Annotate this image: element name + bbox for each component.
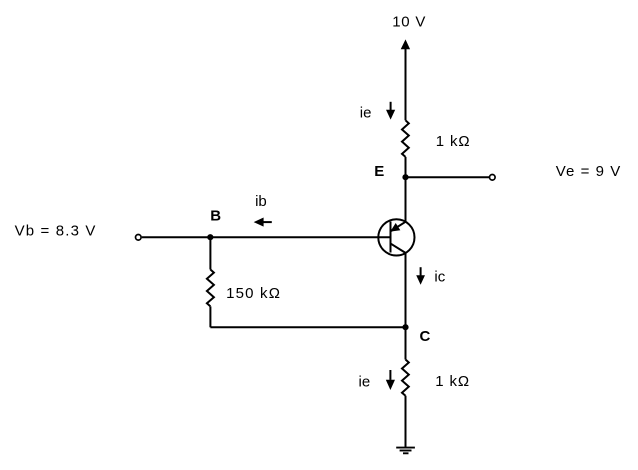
terminal Ve (open circle) [490,175,496,181]
wire bottom horizontal to node C [210,326,405,328]
wire transistor collector to node C [405,253,407,327]
svg-text:C: C [420,328,431,345]
resistor R2 150 kOhm [207,270,214,307]
wire node B down to R2 [209,237,211,269]
svg-text:ib: ib [255,193,267,210]
ground symbol [396,448,415,454]
svg-text:Ve = 9 V: Ve = 9 V [556,163,622,180]
current arrow ie (top) [387,102,395,119]
svg-text:ie: ie [359,374,371,391]
node C dot [402,324,408,330]
wire node C down to R3 [405,327,407,359]
resistor R3 1 kOhm (bottom) [402,360,409,396]
current arrow ib [255,218,272,226]
svg-text:ie: ie [360,105,372,122]
wire R3 bottom to ground [405,396,407,448]
svg-text:1 kΩ: 1 kΩ [435,373,470,390]
wire R2 bottom [209,306,211,327]
svg-text:10 V: 10 V [392,13,426,30]
svg-text:ic: ic [434,268,445,285]
svg-text:B: B [210,208,221,225]
svg-text:1 kΩ: 1 kΩ [436,133,471,150]
node B dot [207,234,213,240]
current arrow ic [417,267,424,283]
node E dot [402,174,408,180]
wire Vb terminal to transistor base [142,236,391,238]
supply V1 arrow [402,41,410,121]
svg-text:150 kΩ: 150 kΩ [226,285,281,302]
wire R1 bottom to transistor emitter lead [405,157,407,222]
resistor R1 1 kOhm (top) [402,120,409,157]
terminal Vb (open circle) [136,235,142,241]
transistor Q1 (PNP) [378,219,414,255]
svg-text:Vb = 8.3 V: Vb = 8.3 V [15,223,97,240]
svg-text:E: E [374,163,384,180]
current arrow ie (bottom) [387,370,395,389]
wire node E to output terminal [406,176,490,178]
